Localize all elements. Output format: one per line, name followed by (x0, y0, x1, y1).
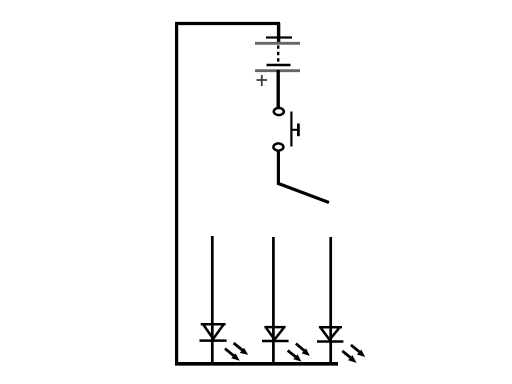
wire switch blade open to right (278, 151, 329, 203)
switch S1 actuator cap (297, 124, 300, 137)
wire LED branch 3 (329, 237, 332, 363)
wire battery top stub (277, 23, 280, 43)
battery B1 cell 2 positive plate (255, 69, 300, 72)
switch S1 top terminal (274, 108, 284, 115)
switch S1 bottom terminal (273, 143, 283, 150)
wire LED branch 2 (272, 237, 275, 363)
battery B1 cell 2 negative plate (267, 64, 291, 66)
wire LED branch 1 (211, 236, 214, 363)
wire battery to switch (277, 70, 280, 108)
battery B1 cell 1 negative plate (266, 36, 292, 38)
battery B1 dashed link between cells (277, 45, 279, 63)
LED D1 (200, 324, 227, 340)
switch S1 actuator stem (291, 129, 297, 131)
wire top horizontal (175, 22, 280, 25)
LED D1 light arrows (225, 343, 243, 356)
LED D2 light arrows (288, 344, 305, 358)
wire left vertical (175, 22, 178, 364)
LED D3 (317, 327, 343, 341)
LED D2 (262, 327, 289, 341)
LED D3 light arrows (342, 345, 360, 358)
switch S1 push-button contact bar (290, 112, 292, 147)
battery B1 plus polarity label (257, 75, 268, 86)
wire bottom bus (175, 362, 338, 366)
battery B1 cell 1 positive plate (255, 42, 300, 45)
